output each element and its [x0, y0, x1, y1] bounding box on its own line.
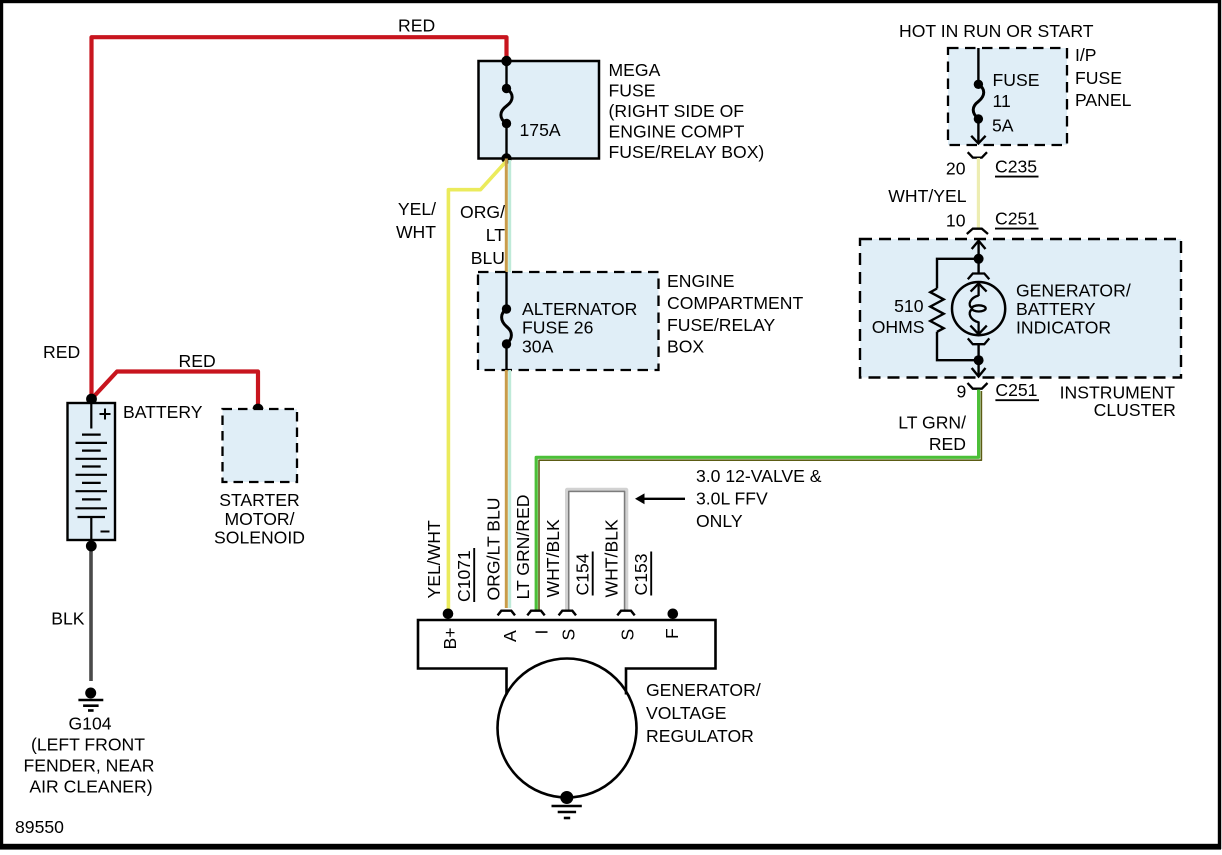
wire RED: battery positive to mega fuse (top run)	[92, 37, 507, 398]
svg-text:ORG/: ORG/	[460, 202, 505, 222]
indicator lamp circle	[952, 282, 1005, 335]
svg-text:S: S	[618, 629, 638, 641]
generator terminal connector hats A I S S	[498, 611, 515, 616]
svg-text:ONLY: ONLY	[696, 511, 743, 531]
generator/voltage regulator terminal box	[418, 620, 716, 695]
wire LT GRN/RED: C251 to generator I (green)	[536, 390, 978, 612]
svg-text:175A: 175A	[520, 120, 561, 140]
svg-text:MOTOR/: MOTOR/	[224, 509, 294, 529]
svg-text:VOLTAGE: VOLTAGE	[646, 703, 727, 723]
svg-text:REGULATOR: REGULATOR	[646, 726, 754, 746]
svg-text:30A: 30A	[522, 336, 554, 356]
svg-text:OHMS: OHMS	[872, 317, 925, 337]
svg-text:11: 11	[993, 91, 1011, 111]
wire YEL/WHT: mega fuse to generator B+	[448, 161, 506, 612]
svg-text:FENDER, NEAR: FENDER, NEAR	[24, 756, 155, 776]
wire node to lamp	[977, 241, 979, 274]
fuse 26 element 30A	[502, 272, 512, 370]
svg-text:HOT IN RUN OR START: HOT IN RUN OR START	[899, 21, 1094, 41]
svg-text:FUSE 26: FUSE 26	[522, 318, 594, 338]
svg-text:WHT/YEL: WHT/YEL	[888, 186, 966, 206]
svg-text:I/P: I/P	[1075, 45, 1097, 65]
wire ORG/LT BLU: mega fuse to alternator fuse (orange stripe)	[505, 159, 508, 273]
junction dot: generator B+ terminal	[443, 609, 454, 620]
svg-text:C251: C251	[995, 209, 1037, 229]
wire ORG/LT BLU: light blue stripe (lower)	[508, 370, 511, 608]
svg-text:S: S	[559, 629, 579, 641]
wire ORG/LT BLU: alternator fuse to generator A (orange stripe)	[505, 370, 508, 608]
svg-text:FUSE/RELAY: FUSE/RELAY	[667, 315, 775, 335]
svg-text:RED: RED	[179, 351, 216, 371]
arrow out of instrument cluster (down)	[972, 368, 986, 377]
svg-text:RED: RED	[929, 434, 966, 454]
svg-text:(LEFT FRONT: (LEFT FRONT	[31, 735, 145, 755]
junction dot: generator F terminal	[668, 609, 679, 620]
svg-text:C153: C153	[631, 553, 651, 595]
instrument cluster box	[860, 239, 1181, 378]
svg-text:WHT/BLK: WHT/BLK	[602, 519, 622, 597]
wire WHT/BLK: S-S jumper loop (dark edge)	[569, 491, 625, 610]
connector C235 symbol	[968, 152, 987, 157]
resistor 510 OHMS zigzag	[930, 289, 943, 332]
lamp connector symbol (bottom)	[968, 338, 990, 344]
resistor 510 OHMS branch wiring	[937, 259, 979, 360]
wire WHT/BLK: S-S jumper loop (light)	[567, 490, 626, 610]
svg-text:BATTERY: BATTERY	[1016, 299, 1096, 319]
svg-text:ORG/LT BLU: ORG/LT BLU	[484, 498, 504, 601]
svg-text:MEGA: MEGA	[609, 60, 661, 80]
junction dot: lamp/resistor bottom node	[974, 355, 984, 365]
svg-text:LT: LT	[486, 225, 505, 245]
wire WHT/YEL: C235 to C251	[977, 158, 980, 228]
svg-text:G104: G104	[68, 714, 111, 734]
svg-text:F: F	[662, 628, 682, 639]
wire lamp to bottom node	[977, 344, 979, 376]
junction dot: lamp/resistor top node	[974, 254, 984, 264]
mega fuse box	[479, 61, 600, 159]
svg-text:INDICATOR: INDICATOR	[1016, 317, 1111, 337]
lamp filament with arrows	[970, 283, 987, 334]
svg-text:BLU: BLU	[471, 248, 505, 268]
wire RED: battery positive to starter motor	[92, 372, 259, 409]
battery BAT	[68, 403, 116, 540]
svg-text:FUSE: FUSE	[993, 70, 1040, 90]
junction dot: battery negative terminal	[86, 541, 97, 552]
fuse 11 element 5A	[971, 48, 985, 143]
svg-text:FUSE: FUSE	[1075, 68, 1122, 88]
svg-text:FUSE: FUSE	[609, 81, 656, 101]
lamp connector symbol (top)	[968, 274, 990, 280]
connector C251 symbol (bottom)	[968, 383, 988, 389]
svg-text:3.0L FFV: 3.0L FFV	[696, 489, 768, 509]
svg-text:ALTERNATOR: ALTERNATOR	[522, 299, 637, 319]
wire ORG/LT BLU: light blue stripe (upper)	[508, 160, 511, 272]
svg-text:C154: C154	[573, 553, 593, 595]
svg-text:AIR CLEANER): AIR CLEANER)	[29, 777, 152, 797]
svg-text:STARTER: STARTER	[219, 490, 300, 510]
svg-text:A: A	[500, 630, 520, 642]
wire BLK: battery negative to ground	[89, 546, 93, 681]
svg-text:YEL/: YEL/	[398, 199, 436, 219]
svg-text:5A: 5A	[992, 115, 1014, 135]
svg-text:B+: B+	[440, 627, 460, 649]
ground G104	[78, 688, 103, 711]
svg-text:C1071: C1071	[454, 550, 474, 602]
svg-text:BOX: BOX	[667, 337, 704, 357]
svg-text:BLK: BLK	[51, 609, 85, 629]
svg-text:FUSE/RELAY BOX): FUSE/RELAY BOX)	[609, 142, 765, 162]
svg-text:3.0 12-VALVE &: 3.0 12-VALVE &	[696, 466, 822, 486]
svg-text:WHT/BLK: WHT/BLK	[543, 519, 563, 597]
svg-text:RED: RED	[43, 342, 80, 362]
svg-text:ENGINE COMPT: ENGINE COMPT	[609, 122, 745, 142]
junction dot: mega fuse top terminal	[501, 56, 511, 66]
arrow into instrument cluster (up)	[972, 241, 986, 249]
svg-text:PANEL: PANEL	[1075, 90, 1132, 110]
svg-text:WHT: WHT	[396, 222, 436, 242]
svg-text:9: 9	[957, 382, 967, 402]
connector C251 symbol (top)	[967, 229, 988, 234]
svg-text:RED: RED	[398, 16, 435, 36]
generator case ground	[552, 791, 582, 818]
svg-text:20: 20	[946, 159, 966, 179]
svg-text:ENGINE: ENGINE	[667, 271, 734, 291]
svg-text:LT GRN/: LT GRN/	[898, 412, 966, 432]
svg-text:I: I	[532, 630, 552, 635]
junction dot: starter motor terminal	[253, 404, 264, 415]
svg-text:LT GRN/RED: LT GRN/RED	[513, 495, 533, 600]
svg-text:CLUSTER: CLUSTER	[1094, 400, 1176, 420]
svg-text:(RIGHT SIDE OF: (RIGHT SIDE OF	[609, 101, 745, 121]
junction dot: mega fuse bottom terminal	[501, 153, 511, 163]
junction dot: battery positive terminal	[86, 394, 97, 405]
svg-text:GENERATOR/: GENERATOR/	[646, 680, 761, 700]
svg-text:SOLENOID: SOLENOID	[214, 528, 305, 548]
svg-text:510: 510	[894, 296, 924, 316]
svg-text:COMPARTMENT: COMPARTMENT	[667, 293, 803, 313]
svg-text:BATTERY: BATTERY	[123, 402, 203, 422]
fuse 175A element	[501, 61, 512, 159]
svg-text:C235: C235	[995, 157, 1037, 177]
svg-text:C251: C251	[995, 380, 1037, 400]
engine compartment fuse/relay box (alternator fuse 26)	[478, 272, 659, 370]
wire LT GRN/RED: red tracer stripe	[539, 391, 981, 611]
svg-text:89550: 89550	[15, 817, 64, 837]
generator body circle	[498, 659, 637, 798]
arrow to jumper loop	[635, 493, 685, 504]
svg-text:GENERATOR/: GENERATOR/	[1016, 280, 1131, 300]
svg-text:10: 10	[946, 211, 966, 231]
I/P fuse panel box	[948, 48, 1067, 145]
svg-text:YEL/WHT: YEL/WHT	[424, 520, 444, 598]
starter motor/solenoid box	[223, 409, 298, 482]
